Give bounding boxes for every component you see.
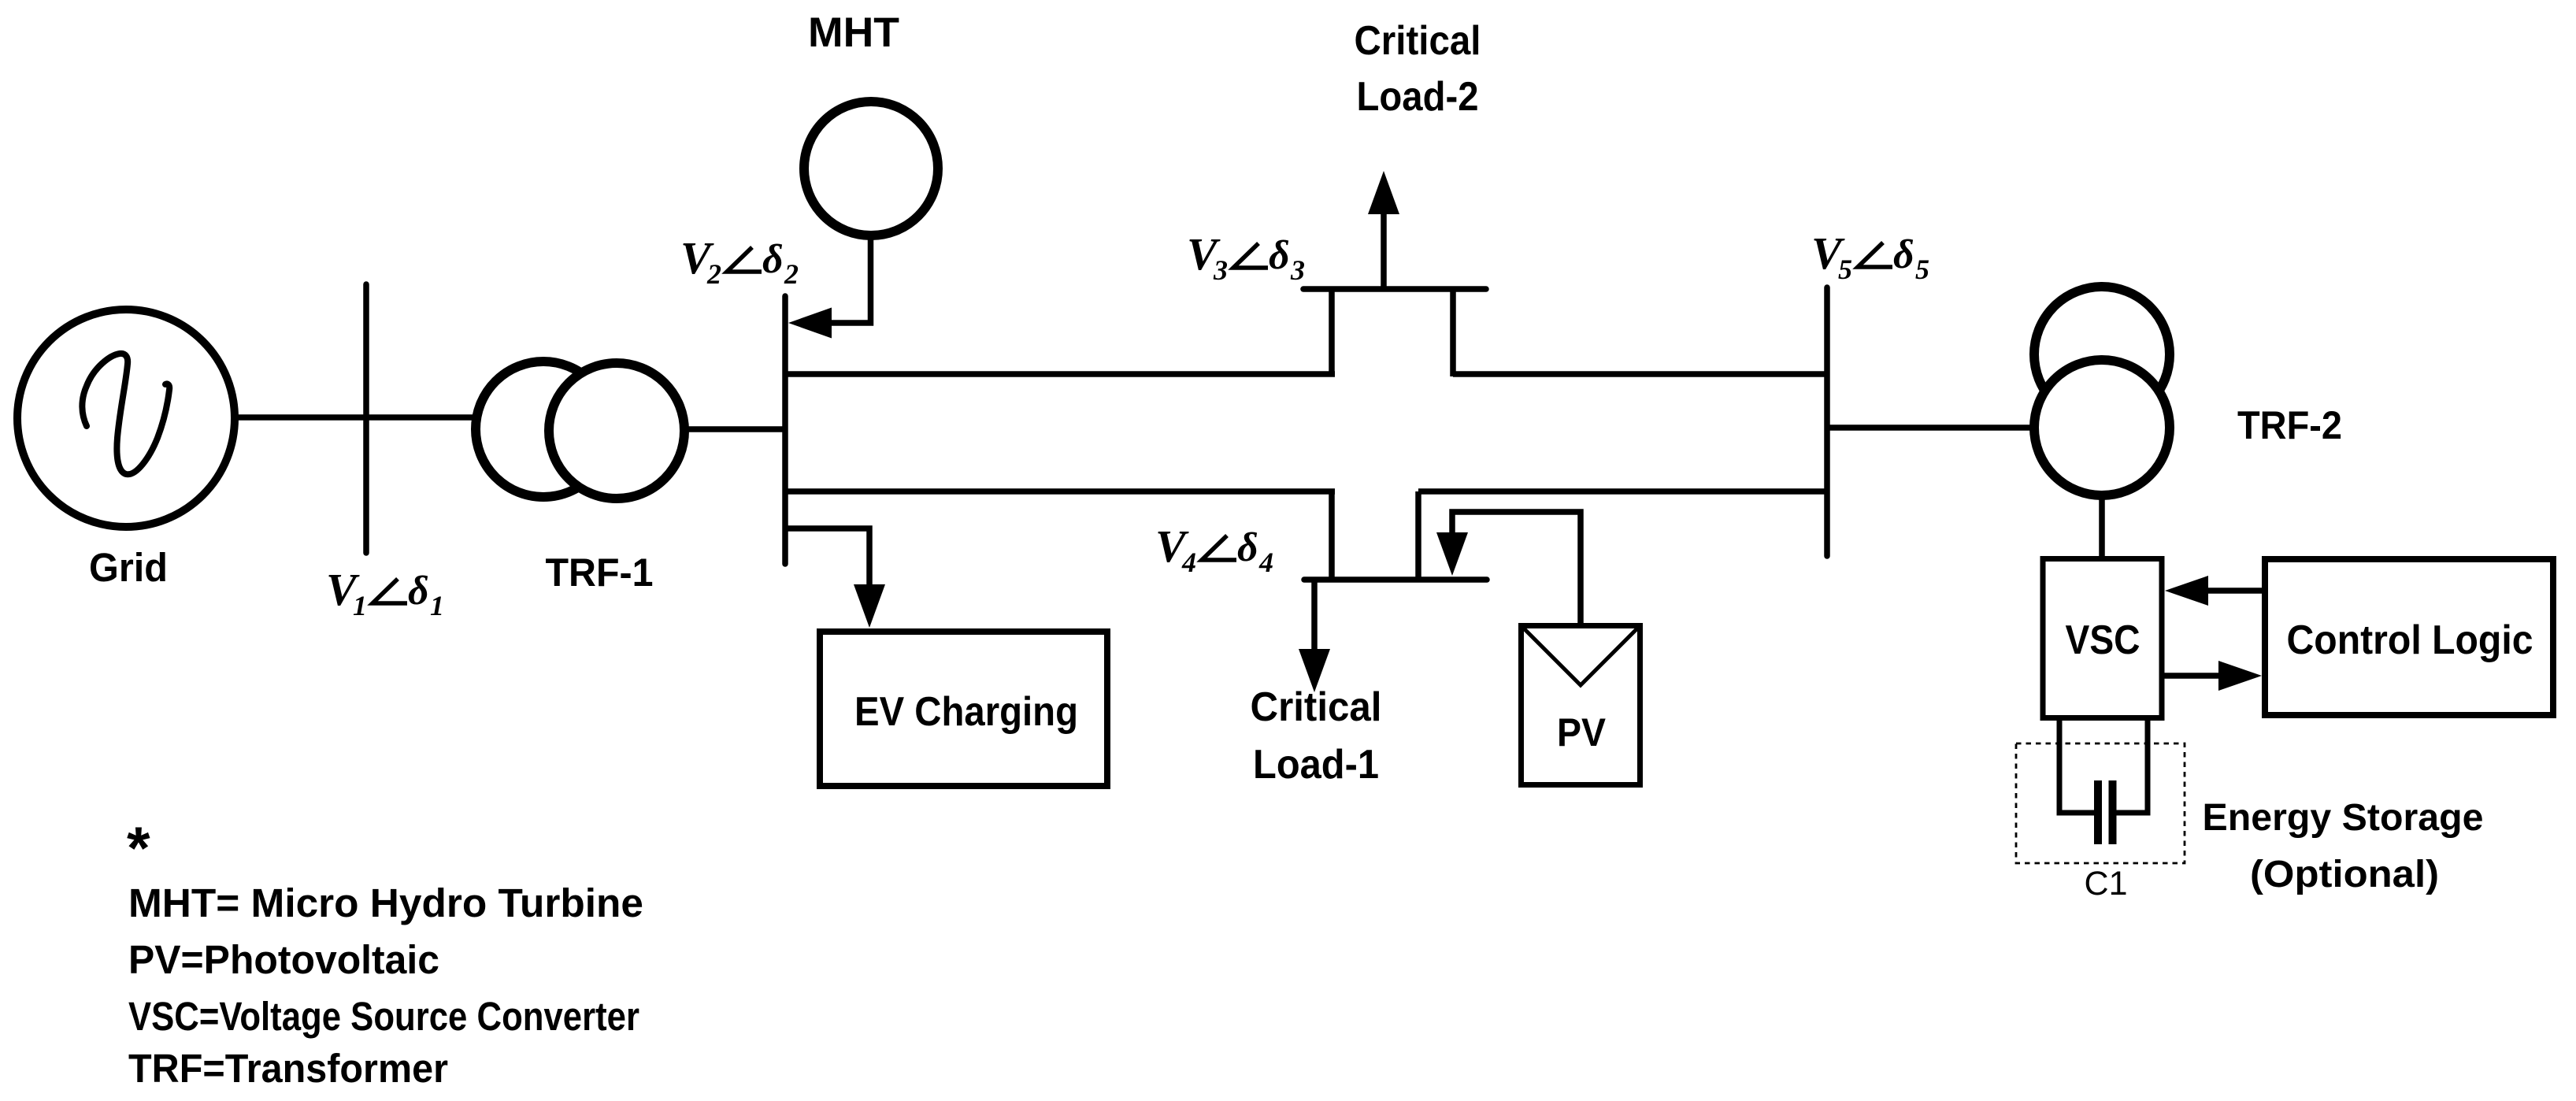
svg-text:VSC=Voltage Source Converter: VSC=Voltage Source Converter bbox=[128, 994, 639, 1039]
svg-text:5: 5 bbox=[1915, 254, 1929, 285]
svg-text:PV=Photovoltaic: PV=Photovoltaic bbox=[128, 937, 439, 982]
svg-text:Critical: Critical bbox=[1251, 684, 1382, 730]
svg-text:TRF-1: TRF-1 bbox=[546, 550, 654, 595]
svg-text:δ: δ bbox=[1893, 232, 1914, 277]
svg-text:5: 5 bbox=[1838, 254, 1852, 285]
svg-text:2: 2 bbox=[706, 258, 721, 290]
svg-text:TRF-2: TRF-2 bbox=[2237, 403, 2342, 447]
svg-text:4: 4 bbox=[1258, 547, 1273, 578]
svg-text:2: 2 bbox=[784, 258, 799, 290]
svg-text:(Optional): (Optional) bbox=[2250, 854, 2439, 895]
svg-text:δ: δ bbox=[762, 237, 784, 282]
svg-text:MHT: MHT bbox=[808, 9, 899, 56]
svg-text:Grid: Grid bbox=[89, 545, 168, 590]
svg-text:MHT= Micro Hydro Turbine: MHT= Micro Hydro Turbine bbox=[128, 880, 643, 925]
svg-text:δ: δ bbox=[1237, 525, 1258, 570]
svg-text:VSC: VSC bbox=[2066, 617, 2140, 663]
svg-text:Load-1: Load-1 bbox=[1253, 742, 1379, 788]
svg-text:3: 3 bbox=[1213, 254, 1228, 286]
svg-text:4: 4 bbox=[1181, 547, 1196, 578]
svg-text:*: * bbox=[127, 815, 150, 882]
svg-text:Critical: Critical bbox=[1355, 18, 1481, 64]
svg-text:3: 3 bbox=[1290, 254, 1305, 286]
svg-text:Load-2: Load-2 bbox=[1357, 74, 1479, 120]
svg-text:δ: δ bbox=[408, 569, 429, 614]
svg-text:1: 1 bbox=[430, 590, 444, 621]
svg-text:1: 1 bbox=[353, 590, 367, 621]
svg-text:C1: C1 bbox=[2085, 865, 2128, 903]
svg-text:TRF=Transformer: TRF=Transformer bbox=[128, 1046, 448, 1091]
svg-text:Energy Storage: Energy Storage bbox=[2203, 797, 2484, 839]
svg-text:EV Charging: EV Charging bbox=[854, 689, 1078, 735]
svg-text:δ: δ bbox=[1269, 233, 1290, 278]
svg-text:PV: PV bbox=[1557, 710, 1607, 754]
svg-text:Control Logic: Control Logic bbox=[2287, 617, 2533, 663]
